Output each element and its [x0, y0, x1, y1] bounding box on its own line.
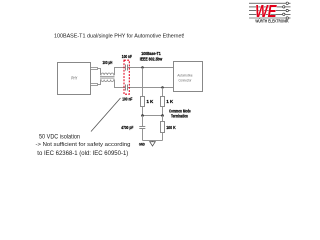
wire from bottom pin to choke: [98, 80, 101, 85]
wire mid rail to R3: [162, 116, 164, 122]
wire R1 to mid rail: [142, 107, 144, 116]
junction node top: [141, 66, 143, 68]
wire choke to top line: [115, 68, 126, 76]
svg-text:100 µH: 100 µH: [103, 60, 113, 65]
wire R2 to mid rail: [162, 107, 164, 116]
Automotive Connector J1: [174, 62, 203, 92]
svg-text:100 K: 100 K: [166, 125, 176, 130]
svg-text:GND: GND: [139, 143, 145, 147]
svg-text:to IEC 62368-1 (old: IEC 60950: to IEC 62368-1 (old: IEC 60950-1): [37, 150, 128, 157]
resistor R2 1K: [161, 97, 165, 107]
svg-text:100 nF: 100 nF: [122, 96, 132, 101]
svg-text:-> Not sufficient for safety a: -> Not sufficient for safety according: [36, 142, 131, 148]
svg-text:Connector: Connector: [179, 77, 192, 82]
svg-text:WÜRTH ELEKTRONIK: WÜRTH ELEKTRONIK: [255, 19, 288, 24]
PHY box U1: [58, 63, 91, 95]
svg-text:1 K: 1 K: [147, 99, 155, 104]
common mode choke L1: [100, 73, 115, 81]
wire C3 to bottom rail: [142, 129, 144, 141]
svg-text:100BASE-T1 dual/single PHY for: 100BASE-T1 dual/single PHY for Automotiv…: [54, 34, 185, 40]
wire mid rail to C3: [142, 116, 144, 127]
annotation pointer line: [91, 98, 121, 132]
svg-text:Termination: Termination: [171, 114, 188, 119]
wire from top pin to choke: [98, 69, 101, 76]
bottom rail wire: [143, 140, 163, 142]
resistor R3 100K: [161, 122, 165, 133]
resistor R1 1K: [141, 97, 145, 107]
junction node mid left: [141, 114, 144, 117]
svg-text:IEEE 802.3bw: IEEE 802.3bw: [140, 56, 163, 61]
wire top junction down to R1: [142, 68, 144, 97]
wire bottom junction down to R2: [162, 88, 164, 97]
wire choke to bottom line: [115, 80, 126, 88]
svg-text:50 VDC isolation: 50 VDC isolation: [39, 134, 80, 140]
svg-text:PHY: PHY: [71, 76, 77, 81]
junction node bottom: [161, 86, 163, 88]
ground: [150, 141, 156, 147]
capacitor C2 100nF bottom: [126, 85, 128, 91]
svg-text:100 nF: 100 nF: [122, 54, 132, 59]
svg-text:1 K: 1 K: [166, 99, 174, 104]
capacitor C3 4700pF: [139, 127, 145, 129]
bottom wire caps to connector: [128, 87, 174, 89]
label Common Mode Termination: [169, 108, 191, 118]
mid rail wire: [143, 115, 163, 117]
svg-text:4700 pF: 4700 pF: [121, 125, 133, 130]
label 100Base-T1 IEEE 802.3bw: [140, 51, 163, 61]
wire R3 to bottom rail: [162, 133, 164, 141]
PHY pin stub top: [91, 68, 98, 70]
Wurth Elektronik logo: [249, 1, 291, 23]
capacitor C1 100nF top: [126, 65, 128, 71]
top wire caps to connector: [128, 67, 174, 69]
PHY pin stub bottom: [91, 84, 98, 86]
red dashed isolation box: [124, 60, 129, 94]
junction node mid right: [161, 114, 164, 117]
